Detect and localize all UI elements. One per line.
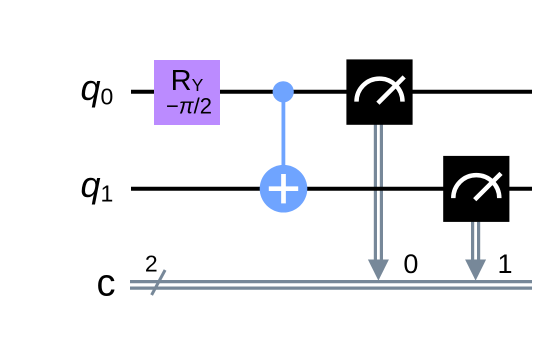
svg-text:1: 1 xyxy=(497,249,512,279)
svg-text:2: 2 xyxy=(145,250,158,276)
svg-text:0: 0 xyxy=(403,249,418,279)
svg-text:−π/2: −π/2 xyxy=(166,93,212,118)
svg-text:c: c xyxy=(97,262,116,304)
